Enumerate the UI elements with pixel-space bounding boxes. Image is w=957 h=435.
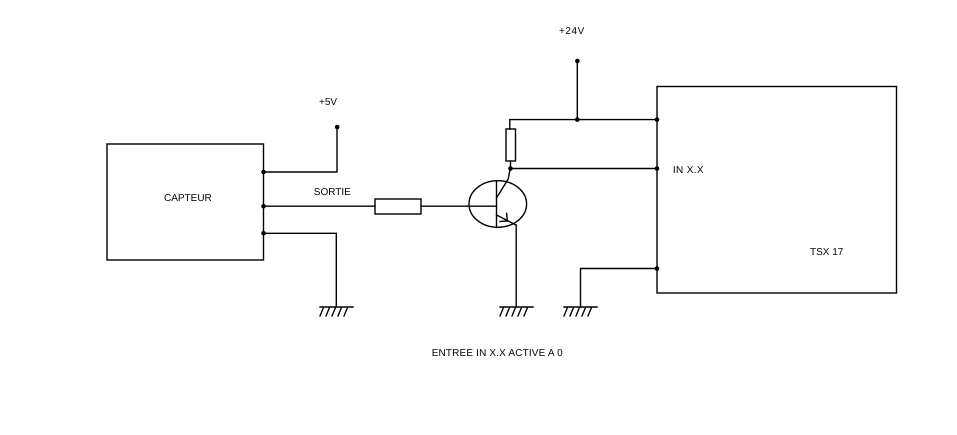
transistor Q1: [469, 169, 527, 228]
node capteur pin 3: [261, 231, 266, 236]
wire +5V drop: [264, 127, 338, 172]
wire sortie lead: [264, 205, 376, 207]
wire IN rail: [511, 168, 658, 170]
ground G1: [320, 307, 353, 316]
node top rail junction: [575, 117, 580, 122]
wire capteur ground: [264, 233, 337, 307]
node IN X.X pin: [655, 166, 660, 171]
wire resistor bottom stub: [510, 161, 512, 169]
svg-text:+24V: +24V: [559, 26, 585, 37]
resistor R2: [506, 129, 516, 161]
resistor R1: [375, 199, 421, 214]
node +24V terminal: [575, 59, 580, 64]
node top rail box pin: [655, 117, 660, 122]
ground G2: [500, 307, 533, 316]
node +5V terminal: [335, 125, 340, 130]
wire tsx ground: [581, 269, 658, 308]
node tsx ground pin: [655, 266, 660, 271]
svg-text:ENTREE IN X.X ACTIVE A 0: ENTREE IN X.X ACTIVE A 0: [432, 348, 563, 359]
svg-text:TSX 17: TSX 17: [810, 247, 844, 258]
node capteur pin 2: [261, 204, 266, 209]
wire top rail: [510, 120, 657, 129]
node collector junction: [508, 166, 513, 171]
svg-text:+5V: +5V: [319, 97, 337, 108]
wire +24V drop: [576, 61, 578, 120]
svg-text:CAPTEUR: CAPTEUR: [164, 193, 212, 204]
svg-text:IN X.X: IN X.X: [673, 165, 704, 176]
wire base lead: [421, 205, 497, 207]
wire emitter ground: [515, 225, 517, 307]
svg-text:SORTIE: SORTIE: [314, 187, 351, 198]
PLC box TSX 17: [657, 87, 897, 294]
node capteur pin 1: [261, 170, 266, 175]
ground G3: [564, 307, 597, 316]
capteur box: [107, 144, 264, 260]
